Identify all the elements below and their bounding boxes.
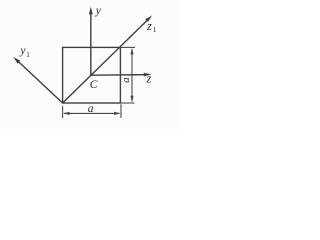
- right vertical dimension line with arrows: [130, 48, 133, 102]
- top edge extension line: [120, 46, 135, 48]
- bottom dimension extension tick left: [62, 106, 64, 118]
- bottom dimension line with arrows: [63, 112, 121, 115]
- bottom edge extension line: [120, 102, 134, 104]
- z axis: [91, 73, 152, 77]
- y axis: [89, 7, 93, 76]
- z1 axis (45-degree diagonal through corner and C): [63, 16, 152, 104]
- y1 axis (45-degree diagonal up-left from corner): [14, 57, 63, 103]
- svg-text:a: a: [88, 103, 94, 115]
- bottom dimension extension tick right: [120, 104, 122, 118]
- svg-text:C: C: [90, 79, 98, 91]
- svg-text:z: z: [146, 19, 152, 33]
- svg-text:y: y: [95, 5, 102, 17]
- svg-text:1: 1: [26, 50, 30, 59]
- svg-text:1: 1: [153, 25, 157, 34]
- svg-text:z: z: [146, 71, 152, 85]
- svg-text:a: a: [120, 77, 132, 83]
- square cross-section outline: [63, 47, 121, 103]
